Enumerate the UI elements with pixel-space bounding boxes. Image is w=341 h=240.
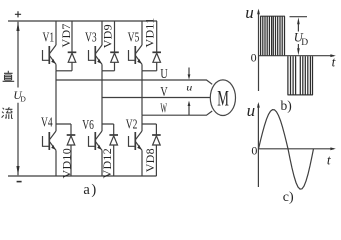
svg-text:VD10: VD10 — [60, 148, 74, 179]
svg-text:D: D — [20, 94, 26, 103]
transistor V5 — [141, 21, 143, 45]
leg3 join — [142, 70, 157, 72]
svg-text:V6: V6 — [82, 116, 94, 132]
diode VD8 — [142, 124, 156, 135]
svg-text:V1: V1 — [43, 29, 55, 45]
node W drop — [141, 71, 143, 115]
svg-text:W: W — [160, 101, 167, 116]
svg-text:VD9: VD9 — [100, 24, 114, 48]
svg-text:V2: V2 — [126, 116, 138, 132]
phase line V — [102, 97, 210, 99]
svg-text:VD7: VD7 — [59, 23, 73, 47]
b positive pulse comb — [260, 15, 285, 17]
diode VD10 — [56, 124, 71, 135]
node U drop — [55, 71, 57, 80]
label liu — [2, 107, 13, 119]
svg-text:b): b) — [281, 98, 292, 113]
node V drop — [101, 71, 103, 98]
svg-text:u: u — [186, 83, 192, 93]
diode VD7 — [71, 21, 73, 52]
svg-text:c): c) — [283, 190, 294, 205]
svg-text:0: 0 — [251, 50, 257, 64]
svg-text:V4: V4 — [41, 114, 53, 130]
svg-text:D: D — [301, 38, 308, 48]
svg-text:u: u — [245, 3, 254, 22]
transistor V6 — [101, 98, 103, 132]
Ud measuring line — [17, 22, 19, 175]
label zhi — [3, 71, 15, 82]
svg-text:VD11: VD11 — [142, 17, 156, 47]
voltage u arrow down — [188, 68, 190, 75]
Ud arrowhead down — [16, 166, 19, 175]
Ud dimension tick — [290, 16, 308, 18]
svg-text:U: U — [160, 66, 168, 82]
motor M — [210, 80, 235, 116]
bottom DC rail — [8, 175, 157, 177]
waveform b axes — [258, 11, 260, 92]
phase line U — [56, 80, 212, 84]
diode VD11 — [156, 21, 158, 52]
svg-text:0: 0 — [251, 144, 257, 158]
svg-text:VD8: VD8 — [143, 148, 157, 172]
svg-text:VD12: VD12 — [100, 148, 114, 179]
top DC rail — [8, 20, 157, 22]
sine wave — [259, 110, 314, 190]
svg-text:V: V — [160, 83, 168, 99]
diode VD12 — [102, 124, 114, 135]
svg-text:M: M — [217, 86, 229, 110]
svg-text:V3: V3 — [85, 29, 97, 45]
svg-text:a): a) — [83, 182, 97, 198]
Ud arrowhead up — [16, 22, 19, 31]
diode VD9 — [114, 21, 116, 52]
transistor V4 — [55, 80, 57, 131]
svg-text:u: u — [247, 101, 256, 120]
leg1 join — [56, 70, 72, 72]
Ud dimension arrow — [297, 24, 299, 50]
waveform c axes — [257, 104, 259, 187]
transistor V3 — [101, 21, 103, 45]
voltage u arrow up — [188, 106, 190, 115]
svg-text:V5: V5 — [128, 29, 140, 45]
b negative pulse comb — [288, 94, 313, 96]
leg2 join — [102, 70, 115, 72]
plus terminal — [15, 11, 21, 17]
transistor V2 — [141, 115, 143, 131]
minus terminal — [17, 181, 22, 183]
phase line W — [142, 111, 212, 115]
transistor V1 — [55, 21, 57, 45]
